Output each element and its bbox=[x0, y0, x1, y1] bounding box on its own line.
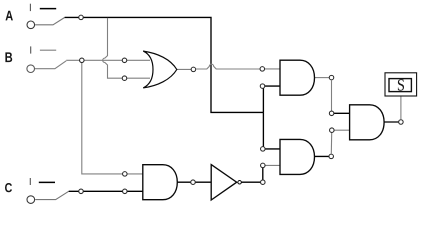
label A bbox=[6, 11, 13, 21]
node U3 in top bbox=[123, 172, 128, 177]
node U6 out bbox=[399, 120, 404, 125]
label C bbox=[5, 183, 12, 192]
node U2 in top bbox=[260, 67, 265, 72]
node OR in top bbox=[122, 58, 127, 63]
node U2 in bottom bbox=[260, 84, 265, 89]
wire C bbox=[69, 190, 143, 192]
node U3 in bottom bbox=[123, 189, 128, 194]
wire OR output to AND U2 (hop over A trunk) bbox=[196, 64, 260, 69]
node OR out bbox=[191, 67, 196, 72]
node U6 in bottom bbox=[330, 128, 335, 133]
wire U4 out to junction bbox=[241, 181, 262, 183]
node U5 in top bbox=[261, 147, 266, 152]
node U6 in top bbox=[329, 111, 334, 116]
wire A branch to OR (with hop over B wire) bbox=[103, 18, 122, 78]
and-gate U6 right bbox=[332, 105, 401, 140]
node U3 out bbox=[191, 180, 196, 185]
node U5 in bottom bbox=[261, 163, 266, 168]
and-gate U3 bottom-left bbox=[125, 165, 212, 200]
node OR in bottom bbox=[122, 76, 127, 81]
wire B branch down to AND bottom-left bbox=[82, 63, 123, 174]
wire U2 out down to U6 bbox=[331, 80, 333, 111]
label B bbox=[5, 52, 12, 62]
node switch B out bbox=[80, 58, 85, 63]
switch C bbox=[27, 178, 69, 203]
node U2 out bbox=[329, 75, 334, 80]
switch A bbox=[27, 4, 65, 29]
node U5 out bbox=[329, 154, 334, 159]
or-gate U1 bbox=[127, 51, 191, 88]
node switch A out bbox=[79, 15, 84, 20]
output indicator S bbox=[385, 73, 417, 96]
node switch C out bbox=[79, 189, 84, 194]
and-gate U2 top-right bbox=[262, 60, 329, 95]
wire B to OR bbox=[66, 59, 122, 61]
wire U6 out up to output S bbox=[400, 96, 402, 119]
switch B bbox=[27, 46, 66, 72]
not-gate U4 bbox=[211, 165, 241, 200]
wire junction up to U5 bbox=[262, 165, 264, 180]
wire U5 out up to U6 bbox=[330, 133, 332, 154]
and-gate U5 bottom-right bbox=[263, 139, 331, 174]
wire A trunk bbox=[65, 17, 264, 151]
node junction J1 bbox=[261, 180, 266, 185]
